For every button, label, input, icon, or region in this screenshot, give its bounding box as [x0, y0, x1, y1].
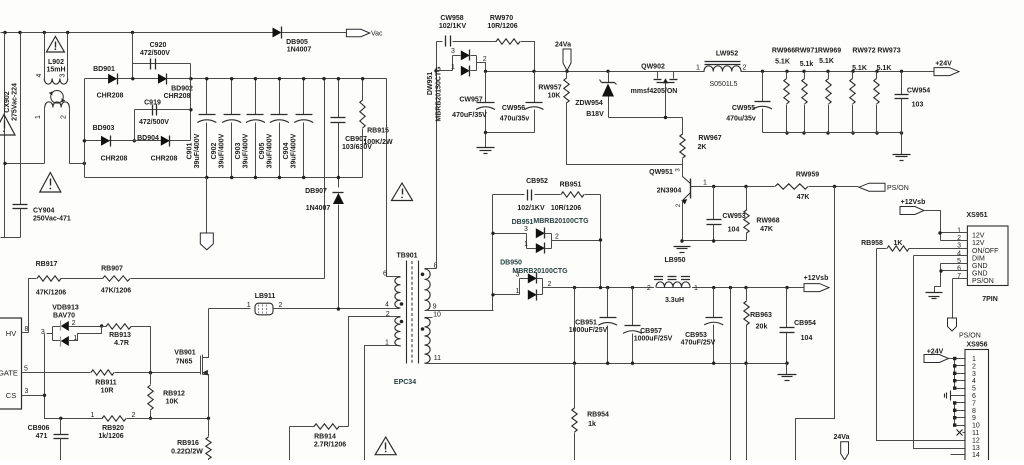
svg-text:2: 2: [72, 320, 76, 327]
svg-text:MBRB20100CTG: MBRB20100CTG: [533, 218, 589, 225]
svg-text:250Vac-471: 250Vac-471: [33, 216, 71, 223]
svg-text:2: 2: [132, 412, 136, 419]
svg-text:BD903: BD903: [93, 125, 115, 132]
svg-text:7: 7: [972, 400, 976, 407]
svg-text:470u/35v: 470u/35v: [726, 116, 756, 123]
svg-text:XS956: XS956: [966, 342, 987, 349]
svg-text:1000uF/25V: 1000uF/25V: [634, 336, 673, 343]
svg-text:47K/1206: 47K/1206: [101, 288, 131, 295]
svg-text:RB912: RB912: [163, 391, 185, 398]
svg-text:MBRB20150CTG: MBRB20150CTG: [436, 66, 443, 122]
svg-text:10K: 10K: [548, 93, 561, 100]
svg-text:BAV70: BAV70: [53, 313, 75, 320]
svg-text:CW953: CW953: [722, 213, 745, 220]
svg-text:C904: C904: [283, 143, 290, 160]
svg-text:XS951: XS951: [966, 212, 987, 219]
svg-text:1: 1: [91, 412, 95, 419]
svg-text:CW955: CW955: [732, 105, 755, 112]
svg-text:RB911: RB911: [95, 380, 117, 387]
svg-text:3: 3: [516, 272, 520, 279]
svg-text:5.1K: 5.1K: [852, 65, 867, 72]
svg-text:1: 1: [972, 356, 976, 363]
svg-text:1: 1: [957, 228, 961, 235]
svg-text:CW954: CW954: [907, 88, 930, 95]
svg-text:1: 1: [694, 285, 698, 292]
svg-text:3: 3: [25, 388, 29, 395]
svg-text:RB917: RB917: [36, 261, 58, 268]
svg-text:RW959: RW959: [796, 172, 819, 179]
svg-text:470uF/25V: 470uF/25V: [681, 340, 716, 347]
svg-text:1: 1: [247, 302, 251, 309]
svg-text:RW969: RW969: [818, 48, 841, 55]
svg-text:CB953: CB953: [685, 332, 707, 339]
svg-text:CB906: CB906: [28, 425, 50, 432]
svg-text:12V: 12V: [972, 240, 985, 247]
svg-text:104: 104: [801, 335, 813, 342]
svg-text:BD902: BD902: [171, 86, 193, 93]
svg-text:PS/ON: PS/ON: [887, 185, 909, 192]
svg-text:RW970: RW970: [490, 15, 513, 22]
svg-text:RB907: RB907: [101, 266, 123, 273]
svg-text:RB963: RB963: [750, 312, 772, 319]
svg-text:4: 4: [972, 378, 976, 385]
svg-text:3: 3: [972, 371, 976, 378]
svg-text:3: 3: [60, 73, 67, 77]
svg-text:4.7R: 4.7R: [114, 340, 129, 347]
svg-text:LW952: LW952: [716, 51, 738, 58]
svg-text:4: 4: [385, 302, 389, 309]
svg-text:CS: CS: [6, 391, 16, 400]
svg-text:RW957: RW957: [538, 85, 561, 92]
svg-text:10R/1206: 10R/1206: [487, 23, 517, 30]
svg-text:PS/ON: PS/ON: [959, 333, 981, 340]
svg-text:24Va: 24Va: [555, 42, 571, 49]
svg-text:104: 104: [728, 227, 740, 234]
svg-text:15mH: 15mH: [46, 67, 65, 74]
svg-text:CB952: CB952: [526, 178, 548, 185]
svg-text:472/500V: 472/500V: [140, 50, 170, 57]
svg-text:RB954: RB954: [587, 412, 609, 419]
svg-text:8: 8: [25, 326, 29, 333]
svg-text:RW973: RW973: [877, 48, 900, 55]
svg-text:6: 6: [383, 271, 387, 278]
svg-text:DIM: DIM: [972, 255, 985, 262]
svg-text:DB950: DB950: [500, 260, 522, 267]
svg-text:2: 2: [743, 65, 747, 72]
svg-text:L902: L902: [48, 59, 64, 66]
svg-text:EPC34: EPC34: [394, 379, 416, 386]
svg-text:CB954: CB954: [794, 320, 816, 327]
svg-text:11: 11: [972, 430, 979, 437]
svg-text:RW968: RW968: [756, 218, 779, 225]
svg-text:mmsf4205/ON: mmsf4205/ON: [631, 88, 678, 95]
svg-text:4: 4: [957, 250, 961, 257]
svg-text:39uF/400V: 39uF/400V: [242, 133, 249, 168]
svg-text:102/1KV: 102/1KV: [439, 23, 467, 30]
svg-text:Vac: Vac: [371, 31, 383, 38]
svg-text:ZDW954: ZDW954: [575, 100, 603, 107]
svg-text:LB950: LB950: [664, 257, 685, 264]
svg-text:100K/2W: 100K/2W: [363, 139, 393, 146]
svg-text:BD904: BD904: [137, 135, 159, 142]
svg-text:RW971: RW971: [795, 48, 818, 55]
svg-text:10: 10: [972, 423, 980, 430]
svg-text:1: 1: [385, 339, 389, 346]
svg-text:470uF/35V: 470uF/35V: [452, 112, 487, 119]
svg-text:+12Vsb: +12Vsb: [901, 199, 926, 206]
svg-text:CHR208: CHR208: [164, 93, 191, 100]
svg-text:2: 2: [61, 115, 68, 119]
svg-text:2K: 2K: [698, 144, 707, 151]
svg-text:C920: C920: [150, 42, 167, 49]
svg-text:RB916: RB916: [177, 440, 199, 447]
svg-text:2.7R/1206: 2.7R/1206: [314, 442, 346, 449]
svg-text:RW967: RW967: [698, 135, 721, 142]
svg-text:RB915: RB915: [367, 128, 389, 135]
svg-text:BD901: BD901: [93, 66, 115, 73]
svg-text:2: 2: [972, 363, 976, 370]
svg-text:GND: GND: [972, 263, 988, 270]
svg-text:2: 2: [548, 281, 552, 288]
svg-text:5: 5: [972, 386, 976, 393]
svg-text:6: 6: [972, 393, 976, 400]
svg-text:RB920: RB920: [102, 425, 124, 432]
svg-text:CB957: CB957: [640, 328, 662, 335]
svg-text:+12Vsb: +12Vsb: [804, 275, 829, 282]
svg-text:3: 3: [524, 226, 528, 233]
svg-text:2: 2: [647, 285, 651, 292]
svg-text:1: 1: [696, 65, 700, 72]
svg-text:RB914: RB914: [314, 434, 336, 441]
svg-text:7N65: 7N65: [176, 359, 193, 366]
svg-text:MBRB20100CTG: MBRB20100CTG: [512, 268, 568, 275]
svg-text:2N3904: 2N3904: [657, 188, 682, 195]
svg-text:3: 3: [451, 48, 455, 55]
svg-text:DW951: DW951: [427, 72, 434, 95]
svg-text:11: 11: [434, 355, 441, 362]
svg-text:RW966: RW966: [772, 48, 795, 55]
svg-text:1: 1: [524, 241, 528, 248]
svg-text:39uF/400V: 39uF/400V: [194, 133, 201, 168]
svg-text:2: 2: [555, 234, 559, 241]
svg-text:S0501L5: S0501L5: [709, 81, 737, 88]
svg-text:7: 7: [957, 273, 961, 280]
svg-text:13: 13: [972, 445, 980, 452]
svg-text:1N4007: 1N4007: [287, 47, 312, 54]
svg-text:471: 471: [36, 433, 48, 440]
svg-text:5: 5: [24, 366, 28, 373]
svg-text:QW902: QW902: [641, 64, 665, 71]
svg-text:RW972: RW972: [852, 48, 875, 55]
svg-text:RB951: RB951: [560, 182, 582, 189]
svg-text:5.1K: 5.1K: [775, 59, 790, 66]
svg-text:1: 1: [35, 115, 42, 119]
svg-text:10R/1206: 10R/1206: [551, 205, 581, 212]
svg-text:102/1KV: 102/1KV: [517, 205, 545, 212]
svg-text:CX902: CX902: [4, 91, 11, 113]
svg-text:LB911: LB911: [255, 293, 276, 300]
svg-text:275Vac-224: 275Vac-224: [12, 83, 19, 121]
svg-text:ON/OFF: ON/OFF: [972, 248, 998, 255]
svg-text:C905: C905: [259, 143, 266, 160]
svg-text:47K/1206: 47K/1206: [36, 290, 66, 297]
svg-text:14: 14: [972, 452, 980, 459]
svg-text:10: 10: [433, 312, 441, 319]
svg-text:1: 1: [516, 288, 520, 295]
svg-text:472/500V: 472/500V: [139, 119, 169, 126]
svg-text:1k: 1k: [588, 421, 596, 428]
svg-text:1: 1: [703, 180, 707, 187]
svg-text:47K: 47K: [797, 194, 810, 201]
svg-text:2: 2: [483, 56, 487, 63]
svg-text:CW957: CW957: [459, 97, 482, 104]
svg-text:CHR208: CHR208: [97, 93, 124, 100]
svg-text:RB913: RB913: [109, 332, 131, 339]
svg-text:8: 8: [434, 263, 438, 270]
svg-text:7PIN: 7PIN: [982, 296, 998, 303]
svg-text:C919: C919: [144, 100, 161, 107]
svg-text:1K: 1K: [894, 240, 903, 247]
svg-text:12V: 12V: [972, 233, 985, 240]
svg-text:1k/1206: 1k/1206: [98, 433, 123, 440]
svg-text:C901: C901: [186, 143, 193, 160]
svg-text:3.3uH: 3.3uH: [665, 297, 684, 304]
svg-text:CHR208: CHR208: [101, 156, 128, 163]
svg-text:VB901: VB901: [174, 350, 196, 357]
svg-text:VDB913: VDB913: [52, 305, 79, 312]
svg-text:C902: C902: [211, 143, 218, 160]
svg-text:RB958: RB958: [861, 240, 883, 247]
svg-text:HV: HV: [6, 329, 16, 338]
svg-text:GND: GND: [972, 271, 988, 278]
svg-text:470u/35v: 470u/35v: [500, 116, 530, 123]
svg-text:2: 2: [279, 302, 283, 309]
svg-text:9: 9: [972, 415, 976, 422]
svg-text:6: 6: [957, 266, 961, 273]
svg-text:39uF/400V: 39uF/400V: [291, 133, 298, 168]
svg-text:5.1K: 5.1K: [819, 58, 834, 65]
svg-text:8: 8: [972, 408, 976, 415]
svg-text:CW958: CW958: [440, 15, 463, 22]
svg-text:DB905: DB905: [286, 39, 308, 46]
svg-text:CHR208: CHR208: [151, 156, 178, 163]
svg-text:CW956: CW956: [502, 105, 525, 112]
svg-text:12: 12: [972, 437, 980, 444]
svg-text:GATE: GATE: [0, 369, 18, 378]
svg-text:39uF/400V: 39uF/400V: [219, 133, 226, 168]
svg-text:+24V: +24V: [935, 61, 952, 68]
svg-text:39uF/400V: 39uF/400V: [266, 133, 273, 168]
svg-text:24Va: 24Va: [834, 434, 850, 441]
svg-text:0.22Ω/2W: 0.22Ω/2W: [171, 449, 203, 456]
svg-text:9: 9: [433, 304, 437, 311]
svg-text:1: 1: [451, 64, 455, 71]
svg-text:CY904: CY904: [33, 208, 55, 215]
svg-text:QW951: QW951: [649, 169, 673, 176]
svg-text:20k: 20k: [756, 324, 768, 331]
svg-text:1N4007: 1N4007: [306, 205, 331, 212]
svg-text:B18V: B18V: [586, 111, 604, 118]
svg-text:C903: C903: [235, 143, 242, 160]
svg-text:2: 2: [386, 311, 390, 318]
svg-text:5.1k: 5.1k: [800, 61, 814, 68]
svg-text:47K: 47K: [760, 226, 773, 233]
svg-text:10K: 10K: [166, 399, 179, 406]
svg-text:PS/ON: PS/ON: [972, 278, 994, 285]
svg-text:DB951: DB951: [512, 219, 534, 226]
svg-text:4: 4: [36, 73, 43, 77]
svg-text:10R: 10R: [101, 388, 114, 395]
svg-text:103: 103: [912, 102, 924, 109]
svg-text:5.1K: 5.1K: [877, 65, 892, 72]
svg-text:CB951: CB951: [575, 320, 597, 327]
svg-text:DB907: DB907: [305, 188, 327, 195]
svg-text:2: 2: [957, 235, 961, 242]
svg-text:TB901: TB901: [396, 253, 417, 260]
